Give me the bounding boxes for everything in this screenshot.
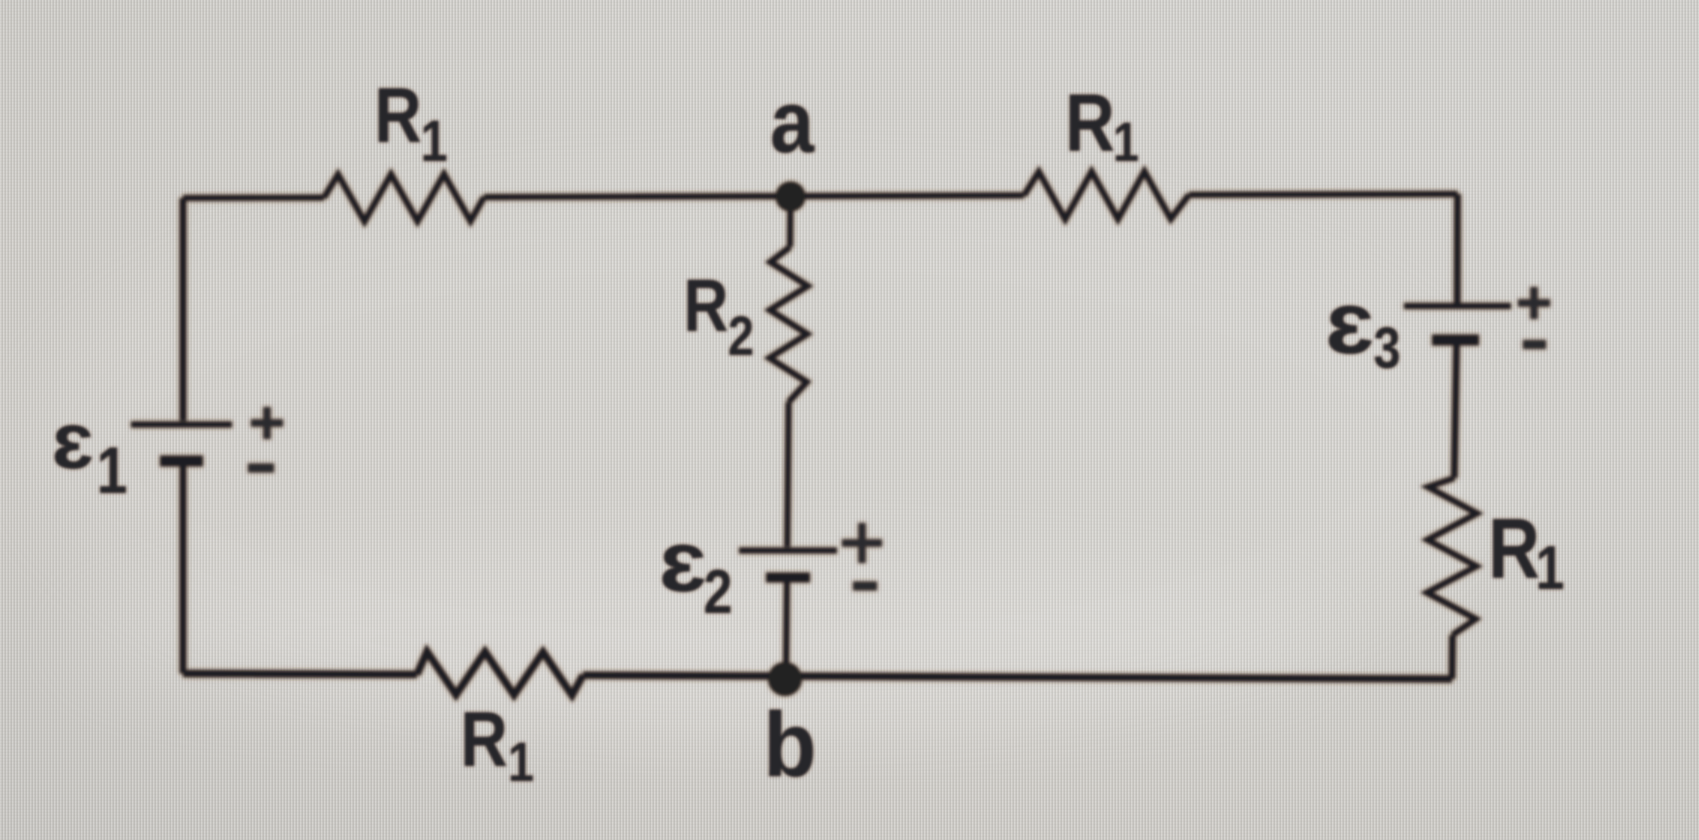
plus sign of battery e3 xyxy=(1518,287,1550,319)
wire from R2 down to battery e2 xyxy=(787,402,788,547)
svg-text:b: b xyxy=(763,694,816,797)
wire from e3 down to R1 right xyxy=(1454,345,1456,478)
node label b xyxy=(763,694,816,797)
svg-text:3: 3 xyxy=(1373,317,1400,381)
node label a xyxy=(770,72,815,171)
svg-text:2: 2 xyxy=(728,304,754,367)
wire right side: corner down to battery e3 xyxy=(1454,194,1461,303)
svg-text:R: R xyxy=(1065,77,1115,169)
resistor R1 (top left) xyxy=(324,174,484,221)
wire top-left horizontal segment xyxy=(183,195,324,202)
label EMF source ε1 xyxy=(52,396,127,507)
svg-text:R: R xyxy=(374,73,421,160)
battery e2 short plate (-) xyxy=(766,573,810,583)
resistor R1 (right vertical) xyxy=(1427,478,1477,635)
label R1 (right resistor) xyxy=(1488,501,1564,603)
plus sign of battery e1 xyxy=(251,407,283,439)
wire from R1 to top-right corner xyxy=(1189,191,1458,198)
svg-text:ɛ: ɛ xyxy=(52,396,94,485)
wire from node a to R1 top right xyxy=(791,192,1025,199)
minus sign of battery e2 xyxy=(853,582,877,591)
svg-text:ɛ: ɛ xyxy=(659,514,707,610)
wire from e2 down to node b xyxy=(783,582,790,676)
svg-text:1: 1 xyxy=(1536,534,1565,603)
minus sign of battery e1 xyxy=(248,464,274,473)
svg-text:a: a xyxy=(770,72,815,171)
bottom wire: node b to R1 bottom xyxy=(583,672,786,680)
resistor R2 (middle vertical) xyxy=(770,247,808,402)
resistor R1 (top right) xyxy=(1024,172,1189,220)
svg-text:ɛ: ɛ xyxy=(1326,273,1375,372)
bottom wire: right corner to node b xyxy=(786,676,1452,679)
node a (junction dot) xyxy=(776,182,806,212)
resistor R1 (bottom) xyxy=(417,652,583,696)
svg-text:R: R xyxy=(1488,501,1540,596)
wire left side: battery e1 up to top-left corner xyxy=(180,198,187,421)
bottom wire: R1 to bottom-left corner xyxy=(183,674,417,675)
wire from R1 to node a xyxy=(484,196,791,197)
svg-text:1: 1 xyxy=(420,110,447,174)
battery e3 long plate (+) xyxy=(1404,303,1511,309)
plus sign of battery e2 xyxy=(842,523,882,563)
minus sign of battery e3 xyxy=(1523,340,1546,349)
label EMF source ε2 xyxy=(659,514,732,627)
wire from R1 right to bottom-right corner xyxy=(1449,635,1456,679)
node b (junction dot) xyxy=(768,662,802,696)
label R1 (top-left resistor) xyxy=(374,73,447,174)
battery e1 long plate (+) xyxy=(131,421,232,427)
battery e2 long plate (+) xyxy=(739,547,837,553)
svg-text:1: 1 xyxy=(97,433,128,507)
label R1 (top-right resistor) xyxy=(1065,77,1139,173)
label R1 (bottom resistor) xyxy=(460,697,534,793)
svg-text:1: 1 xyxy=(508,730,534,793)
label R2 (middle resistor) xyxy=(684,265,755,367)
battery e1 short plate (-) xyxy=(160,456,203,467)
svg-text:1: 1 xyxy=(1113,110,1139,173)
svg-text:R: R xyxy=(684,265,729,347)
wire left side: bottom corner up to battery e1 xyxy=(180,465,187,674)
svg-text:R: R xyxy=(460,697,507,784)
label EMF source ε3 xyxy=(1326,273,1401,381)
wire middle branch: node a down to R2 xyxy=(787,196,794,247)
battery e3 short plate (-) xyxy=(1432,335,1479,346)
svg-text:2: 2 xyxy=(704,558,733,627)
